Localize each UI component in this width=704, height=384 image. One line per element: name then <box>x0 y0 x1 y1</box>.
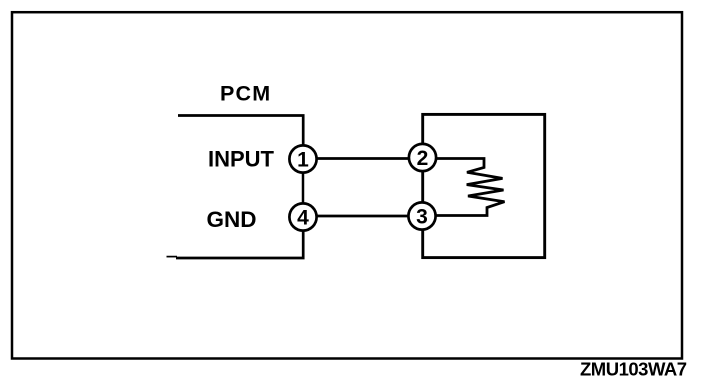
pin 1 <box>289 145 316 172</box>
wire GND net (pin4 to pin3) <box>317 215 409 218</box>
sensor box <box>423 114 545 257</box>
wire PCM top boundary <box>178 116 303 146</box>
pin 3 <box>408 202 435 229</box>
wire pin1 to pin4 <box>302 173 305 204</box>
pin 4 <box>289 203 316 230</box>
wire PCM bottom boundary <box>176 230 303 258</box>
svg-text:2: 2 <box>417 147 429 170</box>
svg-text:ZMU103WA7: ZMU103WA7 <box>580 359 687 380</box>
wire INPUT net (pin1 to pin2) <box>317 157 409 160</box>
svg-text:INPUT: INPUT <box>208 146 275 171</box>
svg-text:1: 1 <box>297 148 309 171</box>
wire stub left of GND boundary <box>167 256 178 258</box>
svg-text:3: 3 <box>416 205 428 228</box>
svg-text:4: 4 <box>297 206 309 229</box>
svg-text:PCM: PCM <box>220 82 271 106</box>
resistor (internal) <box>436 159 505 216</box>
svg-text:GND: GND <box>207 207 257 232</box>
pin 2 <box>409 144 436 171</box>
